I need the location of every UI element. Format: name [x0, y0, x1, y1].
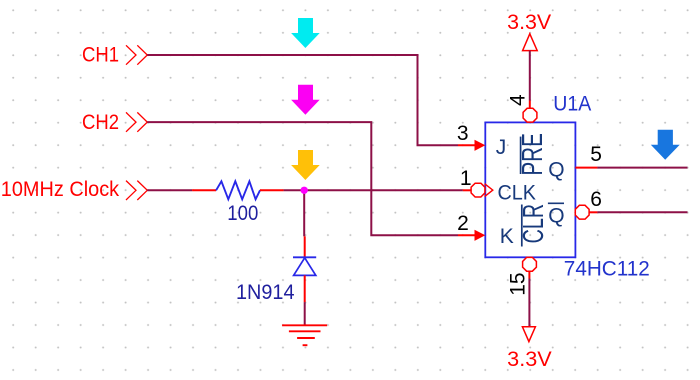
resistor R1 body — [216, 181, 260, 199]
svg-text:K: K — [500, 225, 514, 248]
wire junction down to diode — [303, 190, 305, 236]
annotation arrow cyan — [291, 18, 320, 48]
wire pin 6 output — [597, 211, 687, 213]
pin 1 bubble — [471, 183, 485, 197]
resistor R1 lead left — [192, 189, 216, 191]
pin 1 lead — [463, 189, 471, 191]
annotation arrow orange — [291, 150, 320, 180]
junction node — [301, 187, 308, 194]
power symbol bottom triangle — [522, 327, 535, 342]
svg-text:Q: Q — [548, 158, 564, 181]
svg-text:3.3V: 3.3V — [507, 11, 551, 34]
pin 2 arrowhead — [475, 230, 486, 241]
wire clock port to resistor — [147, 189, 192, 191]
svg-text:Q: Q — [548, 205, 564, 228]
wire resistor to junction and on to pin 1 — [284, 189, 463, 191]
svg-text:4: 4 — [506, 94, 529, 106]
pin 6 bubble — [575, 205, 589, 219]
svg-text:3: 3 — [457, 122, 469, 145]
diode D1 top pin — [304, 236, 306, 257]
diode D1 bottom pin — [304, 275, 306, 302]
annotation arrow blue — [651, 130, 680, 160]
svg-text:U1A: U1A — [553, 93, 591, 116]
pin 15 stub — [528, 271, 530, 278]
pin 2 lead — [458, 234, 475, 236]
svg-text:3.3V: 3.3V — [507, 348, 552, 371]
svg-text:J: J — [496, 136, 507, 159]
svg-text:CH2: CH2 — [82, 111, 119, 134]
svg-text:1: 1 — [460, 167, 472, 190]
svg-text:15: 15 — [506, 272, 529, 295]
svg-text:5: 5 — [590, 143, 602, 166]
svg-text:CLK: CLK — [498, 182, 537, 205]
diode D1 cathode bar — [293, 256, 316, 258]
svg-text:10MHz Clock: 10MHz Clock — [1, 178, 120, 201]
pin name Qbar overline — [548, 202, 564, 204]
svg-text:100: 100 — [227, 202, 258, 225]
resistor R1 lead right — [260, 189, 284, 191]
pin 1 clock wedge — [485, 184, 493, 197]
svg-text:CLR: CLR — [518, 204, 550, 244]
pin 3 lead — [458, 144, 475, 146]
pin 5 lead — [575, 167, 597, 169]
wire CH2 to pin 2 — [147, 122, 458, 235]
wire pin 5 output — [597, 167, 687, 169]
port CH2 symbol — [126, 112, 147, 131]
pin 4 bubble — [523, 108, 537, 122]
svg-text:PRE: PRE — [517, 133, 549, 176]
wire 3.3V to pin 4 — [529, 51, 531, 101]
diode D1 triangle — [294, 258, 316, 276]
wire diode to ground — [304, 302, 306, 325]
pin name CLR overline — [521, 205, 523, 247]
port 10MHz Clock symbol — [126, 181, 147, 200]
svg-text:74HC112: 74HC112 — [564, 257, 650, 280]
ground — [282, 325, 327, 345]
wire pin 15 to 3.3V — [528, 279, 530, 327]
svg-text:1N914: 1N914 — [236, 281, 295, 304]
pin 4 stub — [529, 101, 531, 109]
annotation arrow magenta — [291, 85, 320, 115]
svg-text:CH1: CH1 — [82, 43, 119, 66]
pin name PRE overline — [520, 137, 522, 174]
pin 6 lead — [589, 211, 597, 213]
pin 15 bubble — [523, 257, 537, 271]
power symbol top triangle — [523, 34, 538, 51]
svg-text:6: 6 — [590, 188, 602, 211]
op IC U1A box 74HC112 — [485, 122, 575, 257]
svg-text:2: 2 — [457, 212, 469, 235]
port CH1 symbol — [126, 45, 147, 64]
pin 3 arrowhead — [475, 140, 486, 151]
wire CH1 to pin 3 — [147, 55, 458, 145]
